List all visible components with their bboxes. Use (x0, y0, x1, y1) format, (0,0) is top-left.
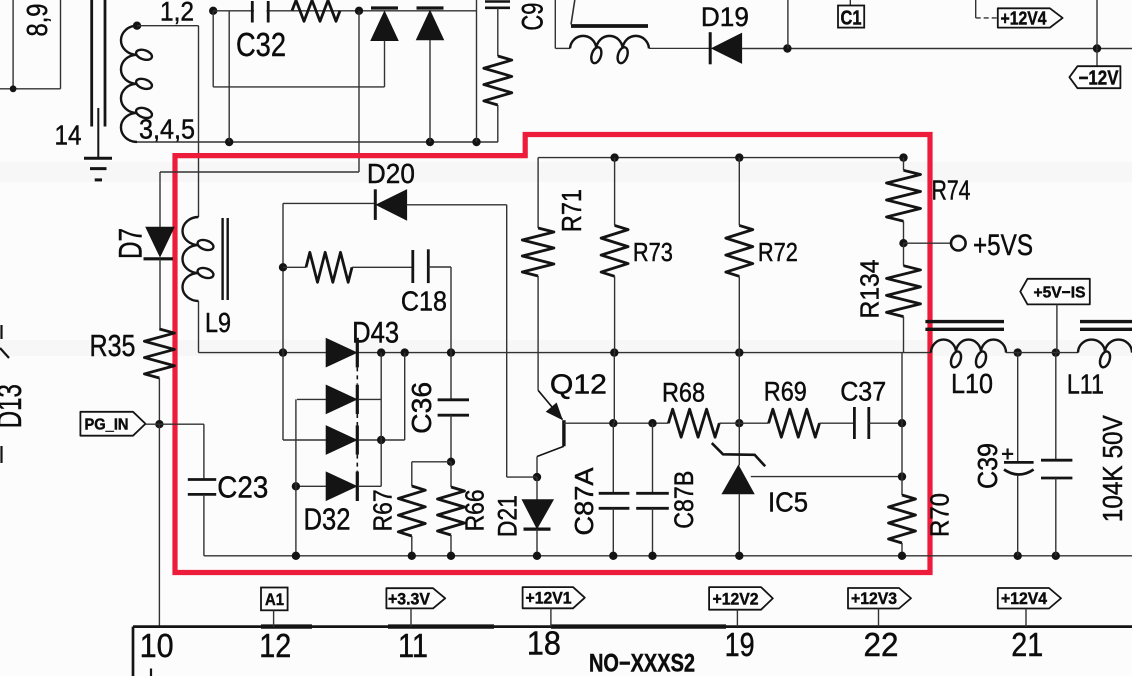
tick +12V2 (736, 610, 738, 627)
svg-text:+12V2: +12V2 (713, 589, 759, 608)
wire 3,4,5 rail (137, 141, 498, 143)
svg-text:104K 50V: 104K 50V (1097, 415, 1128, 522)
svg-text:R134: R134 (854, 260, 884, 319)
svg-text:19: 19 (725, 626, 755, 663)
wire branch up vertical (787, 0, 789, 49)
connector box top edge (133, 625, 1132, 628)
node rail R73 branch (610, 348, 618, 356)
transistor Q12 base bar (562, 420, 565, 446)
wire C9 to resistor (497, 8, 499, 56)
inductor choke T2 core bar (571, 24, 648, 28)
wire R72 drop (738, 353, 740, 424)
node +5VS tap (899, 239, 907, 247)
node rail R72 branch (735, 348, 743, 356)
ground stem (97, 108, 99, 158)
svg-text:R72: R72 (758, 237, 798, 267)
svg-text:R73: R73 (633, 237, 673, 267)
node rail C32 branch (225, 138, 233, 146)
svg-text:+12V4: +12V4 (1001, 9, 1047, 29)
wire long vertical to rail (476, 0, 478, 142)
tick +12V4 (1025, 609, 1027, 627)
node base row C87B (648, 419, 656, 427)
wire anode bus vertical (295, 399, 297, 555)
wire right drop vertical (506, 205, 508, 477)
capacitor C87A (612, 423, 614, 493)
resistor R134 (903, 243, 905, 266)
diode D43-2 (297, 398, 326, 400)
connector bus thick segment 1 (261, 624, 312, 628)
node right column C37 (898, 419, 906, 427)
left edge stub 3 (0, 446, 2, 463)
node C36/R66/R67 junction (447, 458, 455, 466)
connector bus thick segment 2 (388, 624, 494, 628)
inductor L9 winding (183, 217, 199, 301)
connector bus thick segment 3 (551, 624, 726, 628)
node L10/C104 junction (1052, 348, 1060, 356)
node R68/R69/IC5 junction (735, 419, 743, 427)
wire C18 to C36 vertical (428, 266, 451, 268)
wire pin8 vertical (12, 0, 14, 89)
wire C32 branch vertical (228, 11, 230, 142)
svg-text:R70: R70 (925, 493, 955, 537)
svg-text:+12V3: +12V3 (851, 589, 897, 608)
node bottom rail R70 (898, 552, 906, 560)
svg-text:L10: L10 (951, 368, 993, 399)
resistor R69 (769, 409, 820, 437)
node snubber resistor tap (279, 263, 287, 271)
node rail D43 cathode bus (377, 348, 385, 356)
wire R73 drop (613, 353, 615, 424)
wire +5V-IS stem (1056, 304, 1058, 352)
tick +3.3V (410, 608, 412, 626)
node collector/D20 junction (533, 473, 541, 481)
wire D7 top vertical (159, 172, 161, 227)
svg-text:14: 14 (55, 120, 82, 151)
inductor L9 core lines (221, 218, 223, 300)
node rail diode3 return (401, 348, 409, 356)
wire junction to R67 (412, 461, 451, 463)
svg-text:C9: C9 (517, 3, 550, 31)
svg-text:12: 12 (259, 627, 291, 664)
svg-text:R74: R74 (932, 175, 971, 206)
node rail L9/D20 branch (279, 348, 287, 356)
tick A1 (273, 610, 275, 626)
wire R35 to PG_IN node (158, 378, 160, 424)
wire PG_IN to C23 (146, 423, 204, 425)
node bottom rail C104 (1052, 552, 1060, 560)
connector inner stub (150, 669, 152, 676)
node bottom rail R66 (447, 552, 455, 560)
capacitor 104K 50V (1055, 353, 1057, 461)
net +5V-IS flag (1020, 279, 1090, 305)
svg-text:+12V1: +12V1 (526, 589, 572, 608)
transistor Q12 emitter lead from R71 (537, 276, 539, 390)
tick +12V1 (550, 608, 552, 626)
svg-text:22: 22 (864, 626, 899, 663)
node C32 top-left corner (209, 7, 217, 15)
svg-text:+5V−IS: +5V−IS (1034, 285, 1086, 302)
resistor R71 (537, 158, 539, 228)
resistor below C9 (unlabelled) (484, 56, 512, 105)
net PG_IN flag (80, 412, 145, 436)
wire cathode bus vertical (380, 353, 382, 487)
svg-text:C37: C37 (840, 377, 886, 407)
svg-text:D7: D7 (112, 228, 148, 259)
svg-text:C87A: C87A (569, 467, 599, 536)
wire base row (564, 422, 669, 424)
svg-text:D19: D19 (701, 2, 749, 32)
net +12V4 flag (top) (975, 0, 977, 18)
net +12V3 flag (848, 588, 911, 609)
net +3.3V flag (386, 588, 445, 608)
resistor R72 (738, 158, 740, 226)
node top rail R74 (899, 153, 907, 161)
net A1 box (261, 588, 288, 611)
wire C23 top vertical (203, 424, 205, 479)
wire core bar uplead (571, 0, 575, 25)
net +12V4 flag (bottom) (998, 588, 1061, 609)
node bottom rail C87B (648, 552, 656, 560)
wire choke to D19 (649, 47, 710, 49)
transistor Q12 collector lead (537, 446, 564, 456)
inductor L10 winding (931, 340, 1006, 353)
wire IC5 anode to rail (738, 494, 740, 556)
svg-text:L9: L9 (205, 307, 231, 338)
diode D21 (536, 477, 538, 500)
wire drop to L9 vertical (198, 26, 200, 217)
svg-text:D21: D21 (492, 495, 522, 537)
transistor Q12 emitter arrow (547, 403, 562, 419)
svg-text:+3.3V: +3.3V (388, 589, 431, 608)
svg-text:R71: R71 (556, 189, 587, 232)
terminal +5VS circle (951, 236, 966, 251)
transformer T1 secondary winding (121, 26, 137, 142)
node bottom rail C87A (609, 552, 617, 560)
inductor choke T2 winding (570, 36, 649, 49)
wire R68 to R69 (719, 422, 768, 424)
svg-text:1,2: 1,2 (160, 0, 194, 26)
capacitor C39 plus sign (1002, 453, 1013, 455)
svg-text:21: 21 (1011, 626, 1043, 663)
left edge stub 1 (0, 325, 2, 339)
node PG_IN junction (155, 420, 163, 428)
diode D19 (709, 32, 712, 64)
diode D7 (146, 227, 174, 256)
diode D20 (374, 189, 377, 220)
svg-text:C23: C23 (217, 470, 268, 505)
svg-text:A1: A1 (265, 590, 284, 609)
wire to +5VS terminal (904, 242, 952, 244)
connector box left edge (132, 627, 135, 676)
svg-text:R69: R69 (764, 377, 807, 407)
node bottom rail C39 (1014, 552, 1022, 560)
inductor L11 core bars (1080, 320, 1132, 323)
svg-text:IC5: IC5 (768, 486, 808, 517)
wire diode3 return vertical (404, 353, 406, 440)
wire mid rail (199, 352, 932, 354)
node rail C18/C36 branch (447, 348, 455, 356)
wire D20 cathode to right drop (407, 204, 507, 206)
inductor L11 winding (1078, 340, 1132, 353)
wire bottom rail (204, 555, 1132, 557)
capacitor C36 (438, 398, 469, 401)
capacitor C39 (polarized) (1017, 353, 1019, 463)
svg-text:R68: R68 (662, 377, 705, 407)
svg-text:NO−XXXS2: NO−XXXS2 (589, 650, 695, 676)
capacitor C87B (652, 423, 654, 493)
wire 1,2 to L9 drop horizontal (137, 25, 199, 27)
svg-text:8,9: 8,9 (22, 4, 54, 37)
wire right column upper (901, 353, 903, 495)
svg-text:D13: D13 (0, 384, 29, 428)
wire resistor to rail (497, 105, 499, 142)
resistor R74 (903, 158, 905, 171)
ground symbol (84, 157, 112, 160)
svg-text:R66: R66 (460, 489, 490, 531)
svg-text:10: 10 (140, 627, 174, 664)
svg-text:C32: C32 (236, 26, 286, 63)
wire -12V rail (742, 48, 1132, 50)
node rail top-vertical branch (472, 138, 480, 146)
svg-text:+5VS: +5VS (973, 229, 1033, 262)
node top rail R72 (735, 153, 743, 161)
wire top rail (538, 157, 904, 159)
svg-text:L11: L11 (1067, 369, 1104, 400)
wire C32 bottom horizontal (213, 86, 384, 88)
diode rectifier B (unlabelled) (417, 6, 444, 9)
diode D32 (296, 485, 326, 487)
net -12V flag (1069, 66, 1120, 88)
svg-text:D32: D32 (304, 502, 351, 537)
svg-text:+12V4: +12V4 (1001, 589, 1047, 608)
wire choke input vertical (554, 0, 556, 48)
wire D7 to R35 (159, 259, 161, 329)
net +12V1 flag (523, 587, 585, 608)
wire -12V drop (1096, 0, 1098, 66)
wire D20 anode horizontal (283, 202, 375, 204)
capacitor C9 (485, 0, 510, 3)
wire pin9 vertical (60, 0, 62, 89)
wire IC5 cathode vertical (738, 423, 740, 465)
resistor R73 (614, 158, 616, 226)
svg-text:C18: C18 (401, 285, 447, 316)
node bottom rail IC5 (735, 552, 743, 560)
zener IC5 triangle (722, 466, 754, 494)
node snubber/diode junction (355, 7, 363, 15)
svg-text:R67: R67 (367, 489, 397, 531)
wire R69 to C37 (820, 422, 855, 424)
node -12V rail branch up (783, 44, 791, 52)
svg-text:D43: D43 (352, 316, 399, 349)
net C1 box (849, 0, 851, 6)
svg-text:PG_IN: PG_IN (85, 417, 129, 434)
wire C23 bottom vertical (203, 494, 205, 555)
wire IC5 to R70 top (751, 476, 902, 478)
node bottom rail D21 (533, 552, 541, 560)
transformer T1 core line 2 (104, 0, 107, 127)
wire left branch vertical (282, 203, 284, 440)
svg-text:C39: C39 (972, 443, 1003, 489)
zener IC5 bar (712, 443, 765, 466)
node -12V junction (1093, 44, 1101, 52)
node L10/C39 junction (1014, 348, 1022, 356)
node top rail R73 (610, 153, 618, 161)
node R70 top junction (898, 472, 906, 480)
node base row C87A (609, 419, 617, 427)
resistor snubber (unlabelled) (306, 252, 352, 282)
svg-text:3,4,5: 3,4,5 (139, 114, 195, 145)
node cathode bus diode3 (377, 436, 385, 444)
svg-text:11: 11 (398, 627, 428, 664)
svg-text:D20: D20 (367, 158, 415, 189)
wire 8,9 bottom horizontal (0, 88, 61, 90)
dashed package line (356, 367, 358, 384)
resistor R35 (144, 329, 174, 378)
diode D43-3 (283, 439, 326, 441)
capacitor C37 (853, 407, 856, 439)
node rail diode2 branch (426, 138, 434, 146)
wire PG_IN down to pin 10 (158, 424, 160, 626)
resistor R68 (668, 409, 719, 437)
wire L9 bottom lead (198, 301, 200, 353)
node 8,9 junction (10, 85, 17, 92)
diode rectifier A (unlabelled) (371, 6, 398, 9)
resistor R66 (450, 462, 452, 487)
wire L10 to L11 (1006, 352, 1078, 354)
red highlight rectangle (175, 135, 930, 573)
inductor L10 core bars (925, 320, 1004, 323)
resistor top snubber (unlabelled) (292, 0, 340, 21)
node winding top 1,2 (133, 22, 141, 30)
wire C36 bottom vertical (450, 415, 452, 462)
left edge stub 2 (0, 348, 9, 358)
capacitor C18 (411, 250, 414, 283)
node bottom rail R67 (408, 552, 416, 560)
svg-text:Q12: Q12 (550, 368, 607, 399)
svg-text:18: 18 (527, 625, 561, 662)
transformer T1 core line 1 (90, 0, 93, 127)
wire top feed to D7 horizontal (160, 171, 359, 173)
capacitor C32 (251, 1, 254, 23)
wire D20 drop to junction (507, 476, 537, 478)
node D32 anode (292, 482, 300, 490)
wire top snubber row (213, 10, 476, 12)
svg-text:C87B: C87B (669, 471, 699, 529)
resistor R67 (411, 462, 413, 486)
wire D20 feed vertical (358, 11, 360, 172)
resistor R70 (889, 495, 916, 543)
node bottom rail D32 bus (292, 552, 300, 560)
diode D43-1 on rail (326, 339, 356, 367)
tick +12V3 (878, 609, 880, 627)
net +12V2 flag (709, 587, 773, 610)
svg-text:−12V: −12V (1079, 67, 1120, 89)
capacitor C23 (188, 478, 216, 481)
wire C37 to right column (869, 422, 902, 424)
wire C32 left vertical (212, 11, 214, 87)
svg-text:C1: C1 (841, 7, 862, 29)
svg-text:R35: R35 (90, 328, 136, 363)
svg-text:C36: C36 (406, 382, 437, 434)
